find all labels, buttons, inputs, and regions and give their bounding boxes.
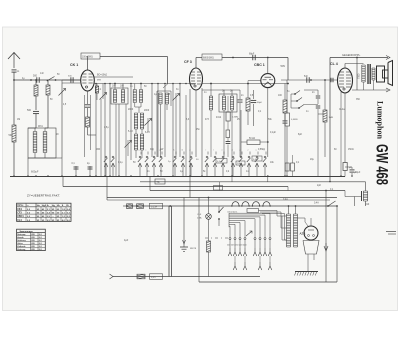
text Lumophon [376,101,386,139]
svg-text:0,1µF: 0,1µF [217,161,223,163]
svg-text:2µF: 2µF [317,185,322,187]
wire v341 [340,92,342,176]
capacitor 0,1u [72,163,79,176]
tube CK1 [70,63,94,91]
selector labels [227,245,247,247]
coil box CF3 [219,94,237,112]
resistor 500 left [9,80,17,176]
label CWS [150,203,163,209]
svg-text:CBC 1: CBC 1 [254,63,265,67]
switch top right [314,201,338,207]
wire v326 [325,190,327,282]
wire CK1 topcap [87,56,89,70]
trimmer T5 [173,93,180,157]
svg-text:C+F: C+F [197,214,202,216]
svg-text:RW78: RW78 [190,248,197,250]
trimmer T2 [100,84,107,100]
svg-text:Gitter: Gitter [17,242,23,245]
switch contact x233 [231,156,235,176]
label 50 [168,159,199,163]
wire top line 3 [330,53,388,58]
svg-text:0,5M: 0,5M [253,159,258,161]
svg-text:30µF: 30µF [355,172,361,174]
label roehren [227,209,259,214]
wire v199 [198,198,200,283]
capacitor C-ant [12,70,17,81]
svg-text:Netzspg.: Netzspg. [17,233,26,236]
wire v165 [164,84,166,158]
wire CK1 anode [94,75,133,82]
wire filter bottom [28,153,62,174]
capacitor CK1 in [68,76,73,83]
wire v84 tube pins [85,95,91,157]
capacitor mid [238,90,243,157]
capacitor out [291,155,295,176]
svg-text:CL4a: CL4a [339,109,345,111]
capacitor fb2 [316,106,321,114]
wire AZ1 anode [298,218,312,226]
capacitor v285 [283,121,288,176]
power transformer right winding [294,214,298,247]
coil CF3 out a [209,84,212,158]
svg-text:5-13: 5-13 [128,131,133,133]
switch contact x161 [159,156,163,176]
svg-text:AZ 1: AZ 1 [300,232,307,236]
svg-text:50V: 50V [281,64,286,68]
svg-text:p: p [190,150,191,152]
switch contact x154 [152,156,156,176]
switch contact x106 [104,156,108,176]
contact row tick labels [139,149,267,155]
coil 2a [222,90,225,110]
text GW 468 [373,144,391,185]
label 100n/3M [81,53,100,59]
wire mid links [241,110,254,157]
svg-text:1M: 1M [17,119,20,121]
svg-text:z: z [248,150,249,152]
wire v101 [100,99,102,176]
resistor barretter [207,241,211,277]
resistor v285 [283,100,287,120]
svg-text:u: u [256,150,257,152]
wire speaker bottom [352,80,388,90]
transformer feed lines [259,211,287,241]
coil pair osc2 [157,91,171,157]
label bottom [150,274,163,280]
switch contact x140 [138,156,142,176]
lamp branch [208,197,210,214]
wire v96 [95,84,97,177]
switch contact x147 [145,156,149,176]
svg-text:Heizung: Heizung [17,249,26,251]
wire CBC1 anode [267,57,269,74]
label 4uF [124,239,129,242]
mains bottom line [113,276,260,278]
resistor col3 [46,81,50,128]
capacitor 8uF [285,163,289,171]
wire v105 [104,84,106,177]
svg-text:CK 1: CK 1 [70,63,78,67]
svg-text:0,1µ: 0,1µ [118,162,123,164]
svg-text:CBC1: CBC1 [17,215,24,218]
coil box 1 [111,88,128,104]
switch c3 [291,105,304,109]
plug bottom left [110,274,114,279]
bus rail F [107,199,330,201]
switch c2 [291,98,302,102]
label box rail D [214,186,223,191]
svg-text:g: g [160,150,161,152]
fuse mains [137,204,144,209]
resistor small [95,84,98,101]
svg-text:20µ: 20µ [310,159,315,161]
wire CK1 left [62,79,81,81]
value labels (misc) [17,73,370,206]
wire top corner [287,58,289,81]
wire CL4 anode [345,64,364,69]
wire stub right [345,197,362,207]
resistor CF3 [246,84,250,126]
trimmer T4 [145,118,152,132]
power transformer left winding [287,214,291,247]
svg-text:4312: 4312 [216,117,222,119]
marks far right [386,232,396,235]
svg-text:Schirmg.: Schirmg. [17,239,26,242]
selector forks row2 [233,256,272,270]
diode arrow v326 [324,243,328,251]
lamp scale [197,214,211,220]
coil mains bottom [137,274,145,279]
wire CK1 bottom [85,91,91,117]
svg-text:GEGENKOPPL.: GEGENKOPPL. [342,53,361,57]
capacitor 5nF [304,76,309,83]
trimmer T1 [59,83,66,158]
svg-text:1nF: 1nF [40,73,45,75]
switch contact x241 [239,156,243,176]
svg-text:y: y [240,150,241,152]
table voltages [17,229,46,251]
svg-text:4µF: 4µF [124,239,129,242]
capacitor fb1 [316,90,321,104]
resistor CK1 grid [86,117,97,135]
svg-text:c: c [146,150,147,152]
bus rail A [10,176,345,178]
transformer core [368,64,370,84]
wire fb links [304,90,325,176]
tube AZ1 [300,226,319,240]
mains plug top [123,204,133,209]
svg-text:e: e [153,150,154,152]
tube CL4 [330,62,353,93]
capacitor 68pF mid [251,90,263,126]
svg-text:0,1µF: 0,1µF [270,132,277,134]
wire CF3 down [190,88,202,176]
wire lamp down [208,219,210,241]
wire v287 [286,80,288,113]
switch mains [218,206,223,226]
wire coil2 drops [224,110,232,176]
resistor small b [226,130,230,141]
wire filter top [28,128,48,132]
label 10k [236,161,245,165]
label 6800/3M [202,54,222,60]
svg-text:7000: 7000 [358,73,361,79]
svg-text:Lumophon: Lumophon [376,101,386,139]
label 7000 [358,73,361,79]
wire v131 [130,84,132,161]
svg-text:GW 468: GW 468 [373,144,391,185]
wire v337 [336,206,338,282]
svg-text:1MΩ: 1MΩ [329,117,334,119]
wire v220 heater [220,177,268,191]
tube CBC1 [254,63,275,87]
wire CL4 cathode [344,93,346,163]
wire drop left [28,158,62,176]
svg-text:W31: W31 [38,126,43,128]
resistor 50k [241,138,268,145]
wire h90 [202,89,240,91]
wire v116 [115,104,117,176]
link dashdot [205,237,228,239]
wire v119 [118,104,120,176]
svg-text:500: 500 [33,75,38,78]
svg-text:BO=10kΩ: BO=10kΩ [97,75,107,77]
svg-text:v: v [222,150,223,152]
svg-text:600µF: 600µF [31,170,39,174]
arrow fb right [386,56,390,60]
ground symbol [180,240,188,251]
wire v158b [157,83,159,157]
wire CBC1 grid [248,81,261,84]
power transformer taps [282,216,287,240]
wire v325 [324,80,326,110]
wire h84 [281,79,337,81]
label BW [190,248,197,250]
text 2Y=UEBERTRAG [27,194,60,198]
svg-text:0,15: 0,15 [151,277,156,279]
svg-text:CF 3: CF 3 [184,60,192,64]
svg-text:6800/3MΩ: 6800/3MΩ [203,58,214,60]
svg-text:150Ω: 150Ω [348,149,354,151]
coil low pair [134,129,143,150]
wire v173 [172,84,174,177]
svg-text:0,4A: 0,4A [314,202,319,205]
switch contact x113 [111,156,115,176]
junction dots wire h83 [95,83,249,85]
bus rail B [140,181,366,183]
coil 2b [230,90,233,110]
wire [61,80,63,83]
switch contact x257 [255,156,259,176]
capacitor 500 [30,75,39,83]
svg-text:Röhre: Röhre [17,204,24,207]
wire CBC1 down [267,88,269,157]
svg-text:110 125 150 220 240: 110 125 150 220 240 [227,245,247,247]
wire xfmr top [288,205,297,214]
wire v184 [183,198,185,241]
wire v126 [125,104,127,176]
svg-text:8µF: 8µF [298,134,303,136]
wire v357 [356,57,358,90]
svg-text:5nF: 5nF [304,76,309,78]
selector arrow [246,231,252,236]
bottom line 2 [199,281,337,283]
transformer secondary [372,68,375,80]
switch contact x191 [189,156,193,176]
svg-text:500: 500 [27,109,32,112]
wire AZ1 down [308,254,314,272]
svg-text:CK1: CK1 [17,208,22,211]
wire v330 long [329,58,331,182]
wire v285 [284,84,286,101]
junction mains [169,205,171,207]
capacitor CL4 grid [331,78,333,83]
coil 1b [121,90,124,103]
svg-text:68pF: 68pF [257,102,263,104]
wire top line 2 [222,57,288,59]
coil 20000 [33,132,37,153]
capacitor small b [226,142,231,158]
svg-text:2000: 2000 [128,109,134,111]
svg-text:s: s [264,150,265,152]
wire h83 ext [202,83,289,85]
svg-text:Ri: Ri [66,205,69,207]
switch contact x175 [173,156,177,176]
wire coils top [114,83,142,90]
tube CF3 [184,60,203,90]
wire v139 mid [136,107,142,158]
label 0,1uF a [216,159,227,164]
svg-text:Kathode: Kathode [17,245,26,248]
wire v152 [151,84,153,158]
label pot [252,156,262,161]
svg-text:7Ω: 7Ω [157,182,160,184]
switch contact x249 [247,156,251,176]
capacitor 2u [87,163,93,176]
switch contact x183 [181,156,185,176]
voltage selector contacts [228,238,272,257]
svg-text:500: 500 [9,134,14,137]
switch contact x265 [263,156,267,176]
svg-text:Anode: Anode [17,236,24,239]
svg-text:CF3: CF3 [17,211,22,214]
chassis bar [295,272,319,276]
switch contact x215 [213,156,217,176]
coil 10000 [43,132,47,153]
coil pair 2 [133,90,142,108]
svg-text:68pF: 68pF [249,54,255,56]
band filter box [28,128,56,158]
bus rail E [107,177,337,201]
wire v110 [109,84,111,177]
svg-text:Spannungen: Spannungen [20,231,34,233]
svg-text:U10: U10 [365,204,370,206]
svg-text:k: k [174,150,175,152]
svg-text:0,4A: 0,4A [283,198,288,201]
wire antenna bus [14,79,81,81]
svg-text:50 kΩ: 50 kΩ [249,138,255,140]
switch S-ant [47,77,57,82]
bus rail D [150,177,345,197]
heater chain bumps [231,202,271,207]
wire v180 [179,84,181,158]
bus rail C [63,176,288,191]
pot vol [285,113,298,176]
table tube data [17,203,71,222]
junction dots rails [13,175,353,182]
label box rail B [155,179,165,184]
voltage selector fan [229,213,270,237]
wire v190 heater [189,177,191,198]
AZ1 socket [303,241,319,255]
svg-text:ZY=UEBERTRAG.FAKT.: ZY=UEBERTRAG.FAKT. [27,194,60,198]
capacitor 68pF top [249,54,255,61]
wire v186 [185,95,187,176]
resistor 0,3M box [226,96,239,130]
svg-text:CL4: CL4 [17,219,22,222]
resistor 1M [323,110,334,157]
coil mid pair [134,113,143,129]
speaker cone [388,61,393,86]
svg-text:6-13: 6-13 [145,132,150,134]
label 50V [281,64,286,68]
svg-text:0,5MΩ: 0,5MΩ [291,119,298,121]
svg-text:10kΩ: 10kΩ [237,163,243,165]
switch c1 [291,91,300,95]
switch contact x223 [221,156,225,176]
wire CF3 topcap [196,58,202,69]
svg-text:4,5µ: 4,5µ [104,127,109,129]
capacitor col2 [27,109,39,128]
arrow speaker bottom [386,88,390,92]
wire top line 1 [100,57,168,89]
transformer primary [362,65,365,82]
mains line [126,205,337,207]
speaker frame [377,66,389,82]
trimmer T3 [125,140,132,156]
svg-text:100n/3MΩ: 100n/3MΩ [82,57,93,59]
choke right [362,182,368,206]
capacitor CL4 box [343,93,352,177]
wire v291 [290,94,292,108]
svg-text:2000: 2000 [144,110,150,112]
antenna [8,53,20,74]
switch contact x207 [205,156,209,176]
svg-text:0,2A: 0,2A [197,217,202,220]
coil 1a [113,90,116,103]
capacitor CL4 k [345,167,357,176]
svg-text:0,15A: 0,15A [151,206,157,209]
mains cable [169,206,172,277]
svg-text:CL 4: CL 4 [330,62,338,66]
wire h83 [62,82,196,85]
resistor col2 [34,79,38,110]
